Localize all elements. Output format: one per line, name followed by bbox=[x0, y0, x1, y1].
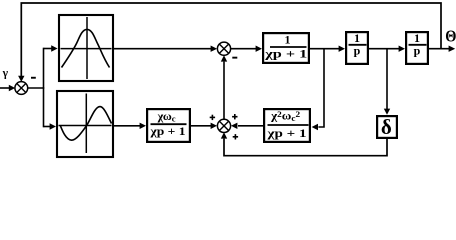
wire arrowhead into S1 top bbox=[18, 76, 24, 82]
block N2 sine nonlinearity bbox=[57, 91, 113, 157]
block P2 integrator 1/p bbox=[406, 31, 428, 64]
wire gaussian output to S2 bbox=[113, 48, 211, 50]
svg-text:γ: γ bbox=[2, 68, 9, 80]
block C1 transfer function chi omega_c/(chi p + 1) bbox=[147, 109, 190, 142]
wire S1 output to branch point bbox=[27, 87, 44, 89]
summing junction S2 bbox=[217, 42, 230, 55]
svg-text:χp + 1: χp + 1 bbox=[149, 124, 185, 138]
wire delta output along bottom into S3 bbox=[224, 138, 387, 156]
svg-text:p: p bbox=[354, 44, 361, 58]
wire S2 output to block F1 bbox=[231, 48, 256, 50]
wire C1 output to S3 bbox=[190, 125, 211, 127]
wire S3 output up to S2 bbox=[223, 62, 225, 120]
wire branch to gaussian block input bbox=[44, 48, 52, 50]
node plus sign top right of S3 bbox=[232, 114, 237, 119]
node plus sign bottom right of S3 bbox=[233, 134, 238, 139]
svg-text:p: p bbox=[414, 44, 421, 58]
svg-text:δ: δ bbox=[381, 115, 392, 139]
block N1 gaussian nonlinearity bbox=[59, 15, 113, 81]
svg-text:χp + 1: χp + 1 bbox=[264, 47, 307, 61]
wire sine output to C1 bbox=[113, 125, 140, 127]
wire branch down to delta block bbox=[386, 49, 388, 109]
svg-text:χp + 1: χp + 1 bbox=[266, 126, 306, 140]
wire P1 output to P2 bbox=[368, 48, 399, 50]
wire gamma input into S1 bbox=[0, 87, 9, 89]
wire top feedback from output branch to summing junction S1 bbox=[21, 3, 441, 77]
summing junction S1 bbox=[15, 82, 28, 95]
wire F2 output to S3 bbox=[238, 125, 263, 127]
node minus sign at S2 lower input bbox=[232, 57, 237, 59]
svg-text:1: 1 bbox=[285, 33, 291, 47]
summing junction S3 bbox=[217, 119, 230, 132]
node minus sign at S1 feedback input bbox=[31, 77, 36, 79]
svg-text:Θ: Θ bbox=[445, 27, 456, 46]
block D1 delta bbox=[377, 115, 397, 139]
wire branch down to block F2 input bbox=[318, 49, 324, 127]
wire P2 output to Theta arrow bbox=[428, 48, 449, 50]
block P1 integrator 1/p bbox=[346, 31, 368, 64]
node plus sign left of S3 bbox=[210, 115, 215, 120]
wire branch to sine block input bbox=[44, 126, 51, 128]
block F1 transfer function 1/(chi p + 1) bbox=[263, 33, 309, 63]
wire branch vertical bbox=[43, 48, 45, 128]
wire block F1 output to integrator P1 bbox=[310, 48, 339, 50]
block F2 transfer function chi^2 omega_c^2/(chi p + 1) bbox=[264, 109, 310, 142]
